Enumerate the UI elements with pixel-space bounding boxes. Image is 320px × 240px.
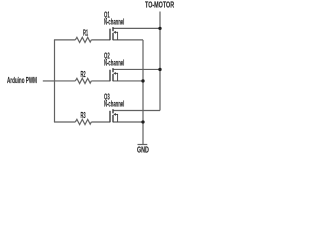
wire bus to R3 (54, 121, 75, 123)
label Q3 (104, 92, 110, 101)
junction dot Q1 drain / motor bus (158, 27, 161, 30)
wire TO-MOTOR bus vertical (159, 12, 161, 111)
wire Q1 drain to motor bus (113, 27, 160, 29)
resistor R3 zigzag (75, 119, 91, 124)
wire Arduino PWM lead (43, 80, 55, 82)
wire R3 to Q3 gate (91, 121, 110, 123)
wire Q3 source to ground bus (113, 121, 143, 123)
wire left bus vertical (53, 40, 55, 122)
label Q1 N-channel (104, 17, 124, 26)
wire R2 to Q2 gate (91, 80, 110, 82)
label R2 (81, 69, 86, 78)
wire Q1 source to ground bus (113, 39, 143, 41)
label Q3 N-channel (104, 99, 124, 108)
label R1 (83, 28, 88, 37)
label Arduino PWM (7, 75, 37, 84)
transistor Q3 (N-channel MOSFET symbol) (110, 109, 113, 122)
resistor R2 zigzag (75, 78, 91, 83)
label R3 (81, 110, 86, 119)
label TO-MOTOR (145, 0, 174, 9)
transistor Q2 (N-channel MOSFET symbol) (110, 68, 113, 81)
transistor Q1 (N-channel MOSFET symbol) (110, 27, 113, 40)
wire Q2 drain to motor bus (113, 68, 160, 70)
wire ground bus vertical (142, 40, 144, 145)
resistor R1 zigzag (75, 37, 91, 42)
label Q2 (104, 51, 110, 60)
wire Q3 drain to motor bus (113, 109, 160, 111)
label GND (137, 145, 149, 154)
label Q1 (104, 10, 110, 19)
junction dot Q3 source / ground bus (141, 120, 144, 123)
wire bus to R2 (54, 80, 75, 82)
ground symbol bar (138, 143, 148, 145)
wire R1 to Q1 gate (91, 39, 110, 41)
wire Q2 source to ground bus (113, 80, 143, 82)
junction dot Q2 drain / motor bus (158, 68, 161, 71)
wire bus to R1 (54, 39, 75, 41)
label Q2 N-channel (104, 58, 124, 67)
junction dot Q2 source / ground bus (141, 79, 144, 82)
